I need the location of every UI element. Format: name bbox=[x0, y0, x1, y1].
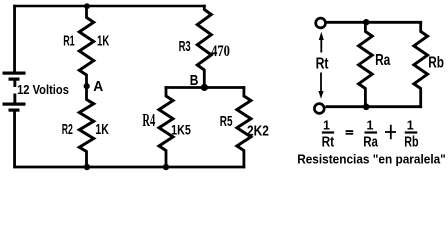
svg-text:A: A bbox=[93, 78, 103, 95]
label R2 bbox=[62, 121, 73, 138]
resistor R5 bbox=[237, 96, 251, 151]
formula bar 1 bbox=[322, 131, 334, 133]
formula denominator Rb bbox=[404, 134, 418, 151]
wire bottom horizontal bbox=[13, 166, 245, 169]
formula denominator Rt bbox=[322, 134, 335, 151]
resistor R2 bbox=[79, 100, 93, 152]
label Rt bbox=[316, 56, 329, 73]
svg-text:1: 1 bbox=[323, 119, 330, 133]
svg-text:Ra: Ra bbox=[375, 52, 390, 69]
wire R5 top lead bbox=[242, 86, 245, 97]
formula numerator 1 (Rb) bbox=[407, 119, 414, 133]
wire left vertical (battery bottom lead) bbox=[13, 112, 16, 169]
battery value label 12 Voltios bbox=[17, 82, 69, 97]
svg-text:470: 470 bbox=[211, 41, 230, 60]
equals sign bbox=[346, 130, 354, 135]
value 1K (R1) bbox=[97, 32, 109, 49]
svg-text:Rb: Rb bbox=[428, 55, 444, 72]
node B junction bbox=[201, 84, 208, 91]
node junction R4-bottom bbox=[163, 164, 169, 170]
svg-text:1K: 1K bbox=[95, 121, 109, 138]
resistor R4 bbox=[159, 96, 173, 151]
value 1K5 bbox=[171, 121, 191, 137]
Rt arrow down head bbox=[318, 91, 323, 99]
node junction Ra-bottom bbox=[363, 104, 370, 111]
wire R4 bottom lead bbox=[165, 150, 168, 168]
Rt arrow up head bbox=[319, 32, 324, 40]
wire bottom horizontal (parallel circuit) bbox=[326, 105, 423, 108]
wire R1 top lead bbox=[85, 6, 88, 19]
formula denominator Ra bbox=[363, 134, 378, 151]
node A junction bbox=[84, 83, 90, 89]
label R3 bbox=[179, 38, 191, 55]
svg-text:R5: R5 bbox=[220, 113, 233, 130]
wire R2 top lead bbox=[85, 86, 88, 101]
wire Ra top lead bbox=[364, 22, 367, 32]
label Ra bbox=[375, 52, 390, 69]
svg-text:R2: R2 bbox=[62, 121, 73, 138]
Rt arrow lower shaft bbox=[320, 73, 322, 93]
svg-text:1: 1 bbox=[367, 119, 374, 133]
node A label bbox=[93, 78, 103, 95]
wire Ra bottom lead bbox=[364, 88, 367, 108]
battery B1 12 Voltios bbox=[3, 72, 26, 112]
Rt arrow upper shaft bbox=[320, 38, 322, 53]
resistor Ra bbox=[359, 32, 373, 89]
svg-text:1K: 1K bbox=[97, 32, 109, 49]
svg-text:R1: R1 bbox=[63, 32, 74, 49]
wire Rb top lead bbox=[419, 21, 422, 33]
value 1K (R2) bbox=[95, 121, 109, 138]
label Rb bbox=[428, 55, 444, 72]
wire top horizontal bbox=[13, 5, 206, 8]
wire R4 top lead bbox=[165, 86, 168, 97]
formula numerator 1 (Ra) bbox=[367, 119, 374, 133]
svg-text:1: 1 bbox=[407, 119, 414, 133]
svg-text:Rb: Rb bbox=[404, 134, 418, 151]
plus sign bbox=[385, 125, 396, 139]
value 470 bbox=[211, 41, 230, 60]
label R5 bbox=[220, 113, 233, 130]
svg-text:Resistencias "en paralela": Resistencias "en paralela" bbox=[297, 152, 446, 167]
node top junction bbox=[84, 3, 90, 9]
svg-text:2K2: 2K2 bbox=[247, 122, 269, 139]
svg-text:12 Voltios: 12 Voltios bbox=[17, 82, 69, 97]
terminal bottom-left (open circle) bbox=[314, 104, 324, 114]
node B label bbox=[190, 73, 199, 89]
wire Rb bottom lead bbox=[419, 88, 422, 109]
label R1 bbox=[63, 32, 74, 49]
svg-text:R3: R3 bbox=[179, 38, 191, 55]
wire R1 bottom lead bbox=[85, 74, 88, 87]
wire R3 bottom lead bbox=[203, 69, 206, 88]
svg-text:1K5: 1K5 bbox=[171, 121, 191, 137]
resistor Rb bbox=[414, 32, 428, 89]
wire R2 bottom lead bbox=[85, 151, 88, 168]
value 2K2 bbox=[247, 122, 269, 139]
svg-text:Rt: Rt bbox=[322, 134, 335, 151]
wire top horizontal (parallel circuit) bbox=[326, 21, 422, 24]
formula bar 2 bbox=[365, 131, 378, 133]
wire left vertical (battery top lead) bbox=[13, 5, 16, 73]
resistor R3 bbox=[197, 10, 211, 71]
svg-text:Rt: Rt bbox=[316, 56, 329, 73]
wire R5 bottom lead bbox=[242, 150, 245, 169]
formula numerator 1 (Rt) bbox=[323, 119, 330, 133]
label R4 bbox=[142, 110, 155, 130]
resistor R1 bbox=[79, 18, 93, 76]
node junction Ra-top bbox=[363, 19, 369, 25]
svg-text:R4: R4 bbox=[142, 110, 155, 130]
node junction R2-bottom bbox=[84, 164, 90, 170]
svg-text:Ra: Ra bbox=[363, 134, 378, 151]
wire middle horizontal bbox=[165, 86, 246, 89]
terminal top-left (open circle) bbox=[316, 18, 326, 28]
formula bar 3 bbox=[405, 131, 418, 133]
wire R3 top lead bbox=[203, 5, 206, 11]
caption Resistencias "en paralela" bbox=[297, 152, 446, 167]
